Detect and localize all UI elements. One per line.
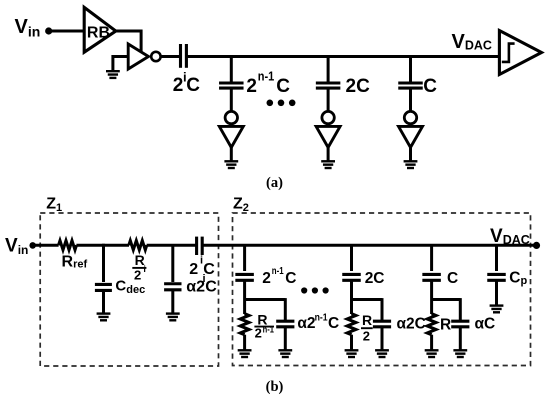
value label alpha2^(n-1)C bbox=[297, 313, 339, 333]
driver triangle (branch 2C) bbox=[316, 126, 340, 147]
resistor branch 2^(n-1)C bbox=[240, 314, 249, 335]
value label R/2 bbox=[361, 312, 373, 343]
wire R/2^i to capacitor 2^iC (b) bbox=[147, 244, 198, 247]
svg-text:Rref: Rref bbox=[62, 254, 88, 271]
ground (branch 2C) bbox=[321, 161, 335, 168]
capacitor 2^(n-1)C bbox=[235, 274, 254, 280]
wire side capacitor C to ground bbox=[459, 327, 462, 351]
wire side capacitor 2C bbox=[381, 298, 384, 321]
svg-text:Cp: Cp bbox=[509, 269, 527, 287]
svg-text:C: C bbox=[447, 270, 458, 287]
wire alpha2^iC to ground bbox=[171, 290, 174, 314]
wire bus to capacitor C bbox=[430, 245, 433, 271]
driver triangle (branch 2^(n-1)C) bbox=[219, 126, 243, 147]
svg-text:C: C bbox=[328, 315, 339, 332]
capacitor C (branch) bbox=[398, 83, 423, 88]
svg-text:Vin: Vin bbox=[5, 236, 28, 257]
wire capacitor 2^(n-1)C to RC node bbox=[243, 281, 246, 315]
wire 2^iC to VDAC terminal bbox=[201, 244, 536, 247]
node VDAC terminal bbox=[533, 242, 540, 249]
svg-text:2: 2 bbox=[363, 328, 370, 343]
impedance block Z2 boundary bbox=[233, 213, 531, 366]
wire alpha2^iC branch bbox=[171, 245, 174, 282]
wire side capacitor C bbox=[459, 298, 462, 321]
svg-text:VDAC: VDAC bbox=[452, 31, 492, 53]
wire side capacitor 2C to ground bbox=[381, 327, 384, 351]
svg-text:2C: 2C bbox=[365, 270, 385, 287]
resistor branch C bbox=[427, 314, 436, 335]
wire bus to capacitor Cp bbox=[495, 245, 498, 271]
wire bus to capacitor C bbox=[409, 57, 412, 83]
value label 2^iC bbox=[173, 70, 201, 97]
wire driver C to ground bbox=[409, 146, 412, 161]
svg-text:αC: αC bbox=[475, 316, 496, 333]
ground (branch 2^(n-1)C) bbox=[224, 161, 238, 168]
wire driver 2C to ground bbox=[327, 146, 330, 161]
resistor R/2^i bbox=[129, 241, 147, 250]
capacitor 2C bbox=[342, 274, 361, 280]
wire RB output bbox=[115, 30, 143, 33]
ground (inverter input) bbox=[106, 71, 120, 78]
wire inverter input to ground bbox=[113, 57, 129, 72]
ground (side capacitor C) bbox=[453, 350, 467, 357]
value label 2^(n-1)C (b) bbox=[262, 265, 296, 287]
svg-text:n-1: n-1 bbox=[258, 68, 275, 83]
svg-text:2: 2 bbox=[189, 261, 198, 278]
svg-text:C: C bbox=[186, 75, 200, 96]
node Vin input terminal bbox=[45, 27, 52, 34]
wire capacitor 2C to RC node bbox=[350, 281, 353, 315]
value label 2^(n-1)C bbox=[246, 68, 290, 97]
svg-text:n-1: n-1 bbox=[272, 265, 284, 277]
capacitor 2^iC series (b) bbox=[197, 237, 203, 255]
wire side capacitor 2^(n-1)C bbox=[284, 298, 287, 321]
wire capacitor C to RC node bbox=[430, 281, 433, 315]
wire bus to capacitor 2C bbox=[327, 57, 330, 83]
svg-text:2: 2 bbox=[262, 270, 271, 287]
side capacitor alpha-C bbox=[451, 321, 469, 327]
capacitor 2^(n-1)C (branch) bbox=[219, 83, 244, 88]
inverter output bubble bbox=[151, 52, 160, 61]
svg-text:α2C: α2C bbox=[397, 316, 426, 333]
svg-text:n-1: n-1 bbox=[263, 324, 274, 334]
capacitor Cp bbox=[487, 274, 506, 280]
wire Rref to node Cdec bbox=[76, 244, 105, 247]
svg-text:2: 2 bbox=[134, 267, 141, 282]
ground (alpha2^iC) bbox=[166, 314, 180, 321]
wire RC node C horizontal bbox=[432, 298, 461, 301]
svg-text:2C: 2C bbox=[346, 76, 371, 97]
wire side capacitor 2^(n-1)C to ground bbox=[284, 327, 287, 351]
wire bus to capacitor 2^(n-1)C bbox=[243, 245, 246, 271]
ground (branch C) bbox=[404, 161, 418, 168]
wire Vin to buffer RB bbox=[50, 30, 86, 33]
wire bus to capacitor 2^(n-1)C bbox=[230, 57, 233, 83]
wire top plate bus bbox=[186, 55, 500, 58]
comparator bbox=[499, 31, 541, 75]
inverter driver triangle bbox=[128, 44, 148, 69]
svg-text:(a): (a) bbox=[266, 175, 283, 191]
value label alpha2^iC bbox=[186, 273, 217, 296]
svg-text:R: R bbox=[440, 317, 451, 334]
svg-text:2: 2 bbox=[246, 76, 257, 97]
svg-text:Z2: Z2 bbox=[233, 196, 249, 214]
svg-text:α2: α2 bbox=[297, 315, 315, 332]
driver bubble (branch C) bbox=[404, 111, 416, 123]
wire resistor 2^(n-1)C to ground bbox=[243, 335, 246, 351]
driver triangle (branch C) bbox=[399, 126, 423, 147]
ground (Cp) bbox=[490, 306, 504, 313]
capacitor alpha2^iC bbox=[164, 284, 181, 290]
wire capacitor C to driver bbox=[409, 89, 412, 111]
value label R/2^i bbox=[132, 252, 146, 282]
wire driver 2^(n-1)C to ground bbox=[230, 146, 233, 161]
svg-text:i: i bbox=[143, 264, 146, 274]
svg-text:Z1: Z1 bbox=[46, 196, 62, 214]
svg-text:RB: RB bbox=[87, 24, 110, 41]
wire RB output down to inverter bbox=[140, 30, 143, 52]
capacitor C bbox=[422, 274, 441, 280]
value label R/2^(n-1) bbox=[254, 312, 274, 341]
capacitor 2C (branch) bbox=[316, 83, 341, 88]
svg-text:C: C bbox=[276, 76, 290, 97]
resistor Rref bbox=[59, 241, 77, 250]
svg-text:C: C bbox=[205, 279, 217, 296]
node Vin terminal (b) bbox=[29, 242, 36, 249]
op-amp buffer RB bbox=[84, 7, 116, 52]
svg-text:2: 2 bbox=[255, 326, 262, 341]
wire capacitor 2C to driver bbox=[327, 89, 330, 111]
ground (side capacitor 2^(n-1)C) bbox=[278, 350, 292, 357]
ground (side capacitor 2C) bbox=[375, 350, 389, 357]
svg-text:Vin: Vin bbox=[15, 16, 41, 40]
driver bubble (branch 2^(n-1)C) bbox=[225, 111, 237, 123]
svg-text:C: C bbox=[423, 76, 437, 97]
ellipsis in Z2 bbox=[301, 287, 329, 293]
wire bus to capacitor 2C bbox=[350, 245, 353, 271]
resistor branch 2C bbox=[347, 314, 356, 335]
wire resistor 2C to ground bbox=[350, 335, 353, 351]
wire Cdec to ground bbox=[102, 290, 105, 313]
capacitor Cdec bbox=[95, 284, 112, 290]
wire Cdec branch bbox=[102, 245, 105, 282]
svg-text:R: R bbox=[362, 312, 372, 328]
wire Cp to ground bbox=[495, 280, 498, 305]
impedance block Z1 boundary bbox=[40, 213, 218, 366]
wire capacitor 2^(n-1)C to driver bbox=[230, 89, 233, 111]
wire RC node 2C horizontal bbox=[352, 298, 383, 301]
side capacitor alpha-2^(n-1)C bbox=[276, 321, 294, 327]
ground (Cdec) bbox=[97, 314, 111, 321]
svg-text:C: C bbox=[285, 270, 296, 287]
side capacitor alpha-2C bbox=[373, 321, 391, 327]
svg-text:VDAC: VDAC bbox=[490, 226, 530, 247]
wire RC node 2^(n-1)C horizontal bbox=[245, 298, 286, 301]
ground (resistor 2C) bbox=[345, 350, 359, 357]
driver bubble (branch 2C) bbox=[322, 111, 334, 123]
comparator step symbol bbox=[502, 44, 515, 62]
ground (resistor 2^(n-1)C) bbox=[238, 350, 252, 357]
svg-text:n-1: n-1 bbox=[315, 313, 328, 324]
svg-text:2: 2 bbox=[173, 75, 184, 96]
wire resistor C to ground bbox=[430, 335, 433, 351]
capacitor 2^iC (series) bbox=[181, 44, 187, 68]
value label 2^iC (b) bbox=[189, 254, 215, 278]
wire bubble to capacitor 2^iC bbox=[162, 55, 180, 58]
ground (resistor C) bbox=[425, 350, 439, 357]
wire Vin to Rref bbox=[33, 244, 59, 247]
wire node Cdec to R/2^i bbox=[102, 244, 129, 247]
ellipsis between branches bbox=[267, 100, 296, 107]
svg-text:(b): (b) bbox=[266, 379, 284, 395]
